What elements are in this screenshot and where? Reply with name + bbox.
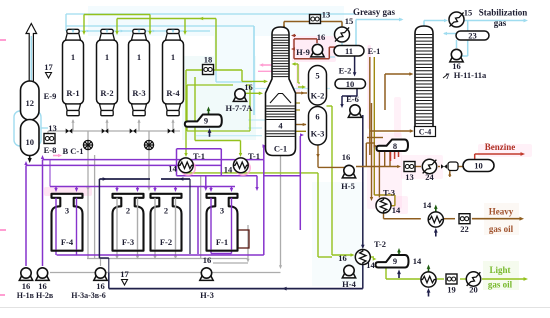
svg-text:E-9: E-9 [44, 91, 57, 101]
svg-text:20: 20 [469, 285, 478, 295]
svg-text:3: 3 [220, 206, 224, 216]
svg-text:Stabilization: Stabilization [479, 8, 528, 18]
svg-text:R-3: R-3 [132, 88, 145, 98]
svg-text:3: 3 [65, 206, 69, 216]
svg-text:H-7-7A: H-7-7A [226, 103, 254, 113]
svg-text:16: 16 [317, 32, 326, 42]
svg-text:9: 9 [204, 116, 208, 126]
svg-text:19: 19 [447, 285, 456, 295]
svg-text:R-4: R-4 [166, 88, 180, 98]
svg-text:15: 15 [464, 8, 473, 18]
svg-text:16: 16 [203, 255, 212, 265]
svg-text:T-1: T-1 [193, 151, 205, 161]
svg-text:1: 1 [137, 52, 141, 62]
svg-text:13: 13 [322, 10, 331, 20]
svg-text:Light: Light [489, 265, 510, 275]
svg-text:B C-1: B C-1 [62, 146, 83, 156]
svg-text:E-2: E-2 [339, 66, 352, 76]
svg-text:H-3: H-3 [200, 290, 214, 300]
svg-text:T-1: T-1 [248, 151, 260, 161]
svg-text:5: 5 [315, 71, 319, 81]
svg-text:7: 7 [446, 72, 450, 81]
svg-text:K-3: K-3 [311, 129, 325, 139]
svg-text:1: 1 [105, 52, 109, 62]
svg-text:11: 11 [345, 46, 353, 56]
svg-text:17: 17 [120, 269, 129, 279]
svg-text:18: 18 [204, 55, 213, 65]
svg-text:16: 16 [38, 281, 47, 291]
svg-text:8: 8 [393, 141, 397, 151]
svg-text:16: 16 [96, 281, 105, 291]
svg-text:R-1: R-1 [66, 88, 79, 98]
svg-text:10: 10 [346, 79, 355, 89]
svg-text:1: 1 [171, 52, 175, 62]
svg-text:24: 24 [425, 172, 434, 182]
svg-text:23: 23 [468, 31, 477, 41]
svg-text:C-4: C-4 [419, 128, 431, 137]
svg-text:13: 13 [48, 123, 57, 133]
svg-text:Greasy gas: Greasy gas [353, 7, 396, 17]
svg-text:14: 14 [366, 260, 375, 270]
svg-text:2: 2 [126, 206, 130, 216]
svg-text:14: 14 [413, 256, 422, 266]
svg-text:E-6: E-6 [346, 94, 359, 104]
svg-text:1: 1 [71, 52, 75, 62]
svg-text:H-9: H-9 [296, 47, 310, 57]
svg-text:Heavy: Heavy [489, 207, 514, 217]
svg-text:H-4: H-4 [342, 279, 356, 289]
svg-text:T-3: T-3 [383, 188, 395, 198]
svg-text:Н-3а-3в-6: Н-3а-3в-6 [71, 291, 106, 300]
svg-text:F-1: F-1 [216, 237, 228, 247]
svg-text:14: 14 [423, 200, 432, 210]
svg-text:F-3: F-3 [122, 237, 134, 247]
svg-text:16: 16 [338, 253, 347, 263]
svg-text:10: 10 [474, 161, 483, 171]
svg-text:14: 14 [224, 165, 233, 175]
svg-text:12: 12 [25, 98, 34, 108]
svg-text:22: 22 [460, 224, 469, 234]
svg-text:14: 14 [392, 205, 401, 215]
svg-text:E-1: E-1 [368, 46, 381, 56]
svg-text:16: 16 [452, 61, 461, 71]
svg-text:16: 16 [22, 281, 31, 291]
svg-text:9: 9 [393, 256, 397, 266]
svg-text:15: 15 [345, 16, 354, 26]
svg-text:gas: gas [494, 18, 507, 28]
svg-text:F-2: F-2 [160, 237, 172, 247]
svg-text:T-2: T-2 [374, 239, 386, 249]
svg-text:H-11-11a: H-11-11a [454, 70, 487, 80]
svg-text:K-2: K-2 [311, 91, 325, 101]
svg-text:14: 14 [168, 164, 177, 174]
svg-text:E-8: E-8 [44, 145, 57, 155]
svg-text:H-5: H-5 [341, 181, 355, 191]
svg-text:13: 13 [405, 172, 414, 182]
svg-text:F-4: F-4 [61, 237, 74, 247]
svg-text:10: 10 [25, 137, 34, 147]
svg-text:Benzine: Benzine [485, 142, 516, 152]
svg-text:H-1в H-2в: H-1в H-2в [17, 291, 54, 300]
svg-text:gas oil: gas oil [488, 280, 513, 290]
svg-text:2: 2 [164, 206, 168, 216]
svg-text:R-2: R-2 [100, 88, 113, 98]
svg-text:C-1: C-1 [274, 144, 287, 154]
svg-text:6: 6 [315, 112, 319, 122]
svg-text:17: 17 [44, 62, 53, 72]
svg-text:16: 16 [342, 152, 351, 162]
svg-text:16: 16 [244, 82, 253, 92]
svg-text:gas oil: gas oil [489, 224, 514, 234]
